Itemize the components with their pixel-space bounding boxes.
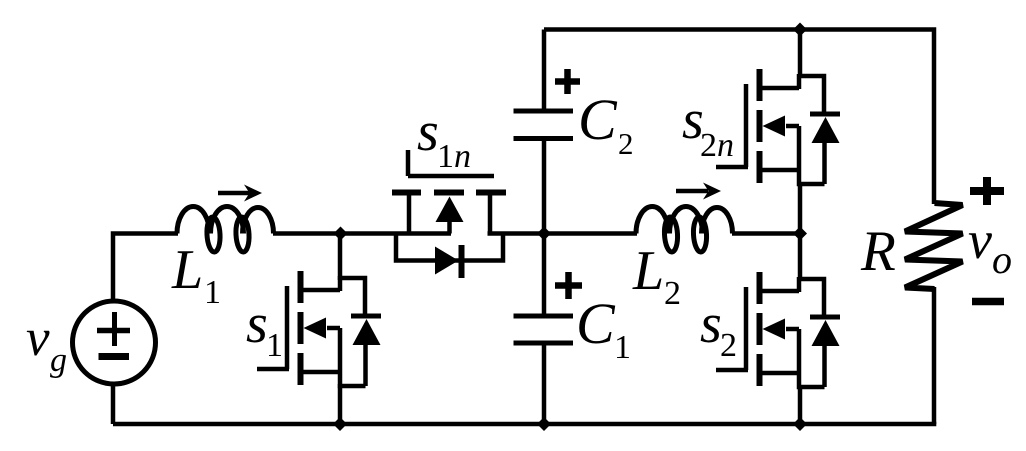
svg-text:2n: 2n — [700, 127, 734, 164]
svg-text:v: v — [26, 309, 50, 367]
svg-text:o: o — [992, 237, 1012, 282]
svg-text:g: g — [50, 342, 67, 379]
node bottom-left junction — [333, 417, 347, 431]
node C junction — [793, 227, 807, 241]
svg-text:s: s — [700, 293, 722, 355]
node bottom-mid junction — [537, 417, 551, 431]
plus mark C2 — [555, 69, 580, 94]
transistor s2n — [716, 69, 840, 184]
svg-text:1: 1 — [204, 274, 221, 311]
plus mark vo — [970, 177, 1004, 205]
current arrow iL2 — [676, 183, 721, 200]
svg-text:1: 1 — [266, 327, 283, 364]
svg-text:L: L — [171, 239, 203, 301]
svg-text:C: C — [578, 87, 618, 152]
wire s2 source to bottom rail — [798, 385, 803, 424]
wire left branch upper — [113, 234, 178, 303]
wire L1 to node A — [273, 231, 451, 236]
wire left branch lower — [111, 384, 116, 424]
wire resistor bottom lead — [932, 287, 937, 424]
plus mark C1 — [555, 272, 582, 299]
capacitor C2 — [514, 30, 574, 234]
svg-text:s: s — [246, 293, 268, 355]
transistor s1n — [392, 150, 506, 278]
wire s1 source to bottom rail — [338, 384, 343, 424]
current arrow iL1 — [218, 185, 262, 202]
wire top rail — [544, 30, 934, 205]
node bottom-right junction — [793, 417, 807, 431]
svg-text:R: R — [860, 220, 896, 283]
wire L2 to node C — [732, 231, 800, 236]
svg-text:1n: 1n — [437, 138, 471, 175]
svg-text:C: C — [576, 291, 616, 356]
capacitor C1 — [514, 234, 574, 425]
transistor s2 — [716, 272, 840, 387]
minus mark vo — [972, 298, 1004, 306]
svg-text:2: 2 — [720, 327, 737, 364]
svg-text:2: 2 — [618, 126, 634, 161]
svg-text:1: 1 — [614, 329, 631, 366]
wire s2n source to node C — [798, 182, 803, 234]
inductor L1 — [177, 207, 274, 253]
wire top node to s2n drain — [798, 30, 803, 79]
wire node A down to s1 drain — [338, 234, 343, 281]
resistor R — [905, 203, 963, 289]
svg-text:2: 2 — [664, 275, 681, 312]
wire bottom rail — [113, 422, 936, 427]
node top junction — [793, 23, 807, 37]
svg-text:v: v — [968, 210, 992, 270]
wire node C to s2 drain — [798, 234, 803, 282]
voltage source vg — [73, 301, 156, 384]
inductor L2 — [636, 207, 733, 253]
transistor s1 — [257, 271, 381, 386]
svg-text:s: s — [417, 101, 439, 163]
node A junction — [334, 227, 348, 241]
wire node B to L2 — [488, 231, 638, 236]
node B junction — [537, 227, 551, 241]
svg-text:L: L — [632, 240, 664, 302]
